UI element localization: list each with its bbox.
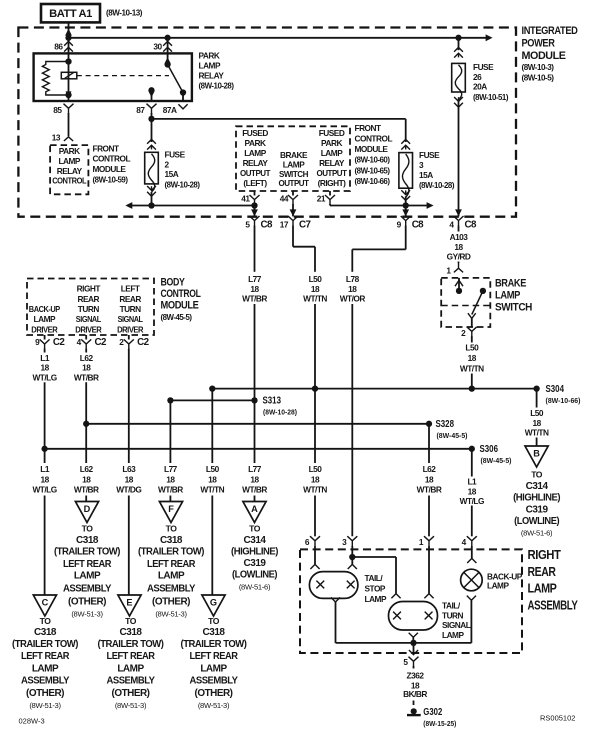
svg-text:CONTROL: CONTROL bbox=[52, 176, 86, 186]
svg-text:D: D bbox=[84, 504, 91, 514]
svg-text:41: 41 bbox=[241, 193, 250, 203]
svg-text:L1: L1 bbox=[467, 477, 477, 487]
svg-text:S313: S313 bbox=[263, 395, 282, 406]
svg-text:S306: S306 bbox=[480, 444, 499, 455]
svg-text:E: E bbox=[126, 598, 132, 608]
svg-text:PARK: PARK bbox=[245, 138, 266, 148]
svg-text:C318: C318 bbox=[160, 535, 183, 546]
svg-text:(8W-51-3): (8W-51-3) bbox=[115, 701, 147, 710]
svg-text:LEFT REAR: LEFT REAR bbox=[147, 559, 196, 570]
svg-text:(8W-51-6): (8W-51-6) bbox=[239, 583, 271, 592]
svg-text:CONTROL: CONTROL bbox=[161, 288, 201, 300]
svg-text:(8W-10-51): (8W-10-51) bbox=[473, 92, 509, 102]
svg-text:17: 17 bbox=[280, 220, 289, 230]
svg-text:30: 30 bbox=[153, 41, 162, 51]
svg-text:LEFT REAR: LEFT REAR bbox=[21, 651, 70, 662]
svg-text:RELAY: RELAY bbox=[243, 158, 269, 168]
svg-text:(TRAILER TOW): (TRAILER TOW) bbox=[181, 639, 247, 650]
svg-text:L50: L50 bbox=[530, 408, 544, 418]
svg-text:A103: A103 bbox=[450, 232, 469, 242]
svg-text:18: 18 bbox=[82, 475, 91, 485]
svg-text:PARK: PARK bbox=[321, 138, 342, 148]
svg-text:MODULE: MODULE bbox=[93, 164, 127, 174]
svg-text:ASSEMBLY: ASSEMBLY bbox=[147, 584, 196, 595]
svg-text:TAIL/: TAIL/ bbox=[442, 601, 461, 611]
svg-text:18: 18 bbox=[468, 486, 477, 496]
svg-text:C318: C318 bbox=[203, 627, 226, 638]
svg-text:(LOWLINE): (LOWLINE) bbox=[232, 570, 277, 581]
svg-text:(8W-10-13): (8W-10-13) bbox=[106, 7, 143, 17]
svg-text:(8W-10-66): (8W-10-66) bbox=[546, 396, 582, 405]
svg-text:LAMP: LAMP bbox=[74, 571, 101, 582]
svg-text:20A: 20A bbox=[473, 82, 487, 92]
svg-text:LAMP: LAMP bbox=[32, 663, 59, 674]
svg-text:L77: L77 bbox=[248, 274, 262, 284]
svg-text:C: C bbox=[42, 598, 49, 608]
svg-text:C319: C319 bbox=[244, 558, 267, 569]
svg-text:L62: L62 bbox=[423, 464, 437, 474]
svg-text:RS005102: RS005102 bbox=[540, 714, 575, 723]
svg-text:C319: C319 bbox=[526, 504, 549, 515]
svg-text:18: 18 bbox=[40, 363, 49, 373]
svg-text:87A: 87A bbox=[163, 105, 177, 115]
svg-text:FRONT: FRONT bbox=[355, 123, 382, 133]
svg-text:A: A bbox=[251, 504, 258, 514]
svg-text:RELAY: RELAY bbox=[57, 166, 83, 176]
svg-text:(TRAILER TOW): (TRAILER TOW) bbox=[98, 639, 164, 650]
svg-text:C8: C8 bbox=[261, 220, 273, 231]
svg-text:WT/TN: WT/TN bbox=[303, 293, 327, 303]
svg-text:18: 18 bbox=[40, 475, 49, 485]
svg-text:WT/TN: WT/TN bbox=[525, 428, 549, 438]
svg-text:(8W-10-60): (8W-10-60) bbox=[355, 155, 391, 165]
svg-text:LEFT REAR: LEFT REAR bbox=[63, 559, 112, 570]
svg-text:TURN: TURN bbox=[120, 304, 142, 314]
svg-text:C2: C2 bbox=[53, 337, 65, 348]
svg-text:WT/LG: WT/LG bbox=[32, 372, 56, 382]
svg-text:(TRAILER TOW): (TRAILER TOW) bbox=[12, 639, 78, 650]
svg-text:LAMP: LAMP bbox=[528, 581, 558, 596]
svg-text:F: F bbox=[168, 504, 174, 514]
svg-text:WT/BR: WT/BR bbox=[74, 484, 99, 494]
svg-text:(8W-10-59): (8W-10-59) bbox=[93, 175, 129, 185]
svg-text:GY/RD: GY/RD bbox=[447, 252, 471, 262]
svg-text:REAR: REAR bbox=[528, 564, 557, 579]
svg-text:REAR: REAR bbox=[119, 294, 141, 304]
svg-text:(OTHER): (OTHER) bbox=[152, 597, 190, 608]
svg-text:L62: L62 bbox=[80, 464, 94, 474]
svg-text:(HIGHLINE): (HIGHLINE) bbox=[513, 493, 560, 504]
svg-text:C7: C7 bbox=[299, 220, 311, 231]
svg-text:(8W-51-6): (8W-51-6) bbox=[521, 529, 553, 538]
svg-text:LAMP: LAMP bbox=[365, 594, 387, 604]
svg-text:LAMP: LAMP bbox=[34, 314, 56, 324]
svg-text:TO: TO bbox=[40, 616, 52, 626]
svg-text:LAMP: LAMP bbox=[117, 663, 144, 674]
svg-text:L62: L62 bbox=[80, 353, 94, 363]
svg-text:L1: L1 bbox=[40, 353, 50, 363]
svg-text:WT/TN: WT/TN bbox=[460, 364, 484, 374]
svg-text:L50: L50 bbox=[206, 464, 220, 474]
svg-text:(8W-10-28): (8W-10-28) bbox=[199, 81, 235, 91]
svg-text:LAMP: LAMP bbox=[321, 148, 343, 158]
svg-text:LAMP: LAMP bbox=[58, 156, 80, 166]
svg-text:SIGNAL: SIGNAL bbox=[76, 314, 101, 324]
svg-text:FUSE: FUSE bbox=[165, 150, 186, 160]
svg-text:TAIL/: TAIL/ bbox=[365, 573, 384, 583]
svg-text:(OTHER): (OTHER) bbox=[195, 688, 233, 699]
svg-text:(8W-10-28): (8W-10-28) bbox=[165, 179, 201, 189]
svg-text:RELAY: RELAY bbox=[319, 158, 345, 168]
svg-text:(8W-45-5): (8W-45-5) bbox=[437, 431, 469, 440]
svg-text:18: 18 bbox=[311, 284, 320, 294]
svg-text:DRIVER: DRIVER bbox=[31, 324, 57, 334]
svg-text:C2: C2 bbox=[137, 337, 149, 348]
svg-text:(TRAILER TOW): (TRAILER TOW) bbox=[138, 546, 204, 557]
svg-text:DRIVER: DRIVER bbox=[75, 324, 101, 334]
svg-text:WT/TN: WT/TN bbox=[303, 484, 327, 494]
svg-text:LAMP: LAMP bbox=[495, 290, 521, 302]
svg-text:(OTHER): (OTHER) bbox=[26, 688, 64, 699]
svg-text:(LOWLINE): (LOWLINE) bbox=[514, 516, 559, 527]
svg-text:ASSEMBLY: ASSEMBLY bbox=[21, 676, 70, 687]
svg-text:LEFT REAR: LEFT REAR bbox=[190, 651, 239, 662]
svg-text:BRAKE: BRAKE bbox=[495, 278, 527, 290]
svg-text:18: 18 bbox=[454, 242, 463, 252]
svg-text:FRONT: FRONT bbox=[93, 144, 120, 154]
svg-text:(OTHER): (OTHER) bbox=[68, 597, 106, 608]
svg-text:C318: C318 bbox=[120, 627, 143, 638]
svg-text:ASSEMBLY: ASSEMBLY bbox=[528, 598, 579, 613]
svg-text:WT/BR: WT/BR bbox=[158, 484, 183, 494]
svg-text:LAMP: LAMP bbox=[158, 571, 185, 582]
svg-text:WT/BR: WT/BR bbox=[417, 484, 442, 494]
svg-text:C8: C8 bbox=[465, 220, 477, 231]
svg-text:TO: TO bbox=[125, 616, 137, 626]
svg-text:L1: L1 bbox=[40, 464, 50, 474]
svg-text:(TRAILER TOW): (TRAILER TOW) bbox=[54, 546, 120, 557]
svg-text:L78: L78 bbox=[346, 274, 360, 284]
svg-text:(8W-15-25): (8W-15-25) bbox=[423, 719, 456, 728]
svg-text:TURN: TURN bbox=[442, 611, 464, 621]
svg-text:DRIVER: DRIVER bbox=[117, 324, 143, 334]
svg-text:RELAY: RELAY bbox=[199, 71, 225, 81]
svg-text:L63: L63 bbox=[122, 464, 136, 474]
svg-text:ASSEMBLY: ASSEMBLY bbox=[107, 676, 156, 687]
svg-text:(8W-45-5): (8W-45-5) bbox=[161, 312, 193, 322]
svg-text:028W-3: 028W-3 bbox=[19, 716, 45, 725]
svg-text:WT/TN: WT/TN bbox=[200, 484, 224, 494]
svg-text:SIGNAL: SIGNAL bbox=[442, 620, 471, 630]
svg-text:TURN: TURN bbox=[78, 304, 100, 314]
svg-text:MODULE: MODULE bbox=[355, 144, 389, 154]
svg-text:BACK-UP: BACK-UP bbox=[29, 304, 61, 314]
svg-text:OUTPUT: OUTPUT bbox=[317, 168, 347, 178]
svg-text:LAMP: LAMP bbox=[199, 61, 221, 71]
svg-text:MODULE: MODULE bbox=[522, 50, 567, 62]
svg-text:RIGHT: RIGHT bbox=[77, 284, 101, 294]
svg-text:18: 18 bbox=[311, 475, 320, 485]
svg-text:CONTROL: CONTROL bbox=[93, 154, 131, 164]
svg-text:LAMP: LAMP bbox=[442, 630, 464, 640]
svg-text:WT/LG: WT/LG bbox=[460, 496, 484, 506]
svg-text:SWITCH: SWITCH bbox=[495, 302, 532, 314]
svg-text:INTEGRATED: INTEGRATED bbox=[522, 25, 578, 37]
svg-text:LEFT REAR: LEFT REAR bbox=[107, 651, 156, 662]
svg-text:(8W-51-3): (8W-51-3) bbox=[71, 610, 103, 619]
svg-text:RIGHT: RIGHT bbox=[528, 547, 561, 562]
svg-text:FUSE: FUSE bbox=[419, 150, 440, 160]
svg-text:(8W-10-28): (8W-10-28) bbox=[419, 180, 455, 190]
svg-text:(8W-10-5): (8W-10-5) bbox=[522, 72, 555, 82]
svg-text:LAMP: LAMP bbox=[244, 148, 266, 158]
svg-text:LAMP: LAMP bbox=[200, 663, 227, 674]
svg-text:C314: C314 bbox=[526, 481, 549, 492]
svg-text:87: 87 bbox=[136, 105, 145, 115]
svg-text:FUSED: FUSED bbox=[242, 128, 268, 138]
svg-text:(8W-10-65): (8W-10-65) bbox=[355, 165, 391, 175]
svg-text:ASSEMBLY: ASSEMBLY bbox=[190, 676, 239, 687]
svg-text:B: B bbox=[533, 449, 540, 459]
svg-text:LAMP: LAMP bbox=[487, 580, 509, 590]
svg-text:(8W-51-3): (8W-51-3) bbox=[29, 701, 61, 710]
svg-text:STOP: STOP bbox=[365, 584, 386, 594]
svg-text:L77: L77 bbox=[164, 464, 178, 474]
svg-text:C2: C2 bbox=[95, 337, 107, 348]
svg-text:SIGNAL: SIGNAL bbox=[118, 314, 143, 324]
svg-text:BK/BR: BK/BR bbox=[403, 689, 427, 699]
svg-text:18: 18 bbox=[82, 363, 91, 373]
svg-text:PARK: PARK bbox=[199, 51, 220, 61]
svg-text:REAR: REAR bbox=[78, 294, 100, 304]
svg-text:WT/DG: WT/DG bbox=[116, 484, 141, 494]
svg-text:18: 18 bbox=[425, 475, 434, 485]
svg-text:BATT A1: BATT A1 bbox=[49, 8, 92, 20]
svg-text:ASSEMBLY: ASSEMBLY bbox=[63, 584, 112, 595]
svg-text:TO: TO bbox=[208, 616, 220, 626]
svg-text:15A: 15A bbox=[165, 169, 179, 179]
svg-text:13: 13 bbox=[52, 132, 61, 142]
svg-text:18: 18 bbox=[348, 284, 357, 294]
svg-text:S328: S328 bbox=[436, 419, 455, 430]
svg-text:21: 21 bbox=[317, 193, 326, 203]
svg-text:(8W-10-66): (8W-10-66) bbox=[355, 176, 391, 186]
svg-text:(HIGHLINE): (HIGHLINE) bbox=[231, 546, 278, 557]
svg-text:44: 44 bbox=[280, 193, 289, 203]
svg-text:(8W-10-3): (8W-10-3) bbox=[522, 62, 555, 72]
svg-text:WT/OR: WT/OR bbox=[340, 293, 366, 303]
svg-text:C8: C8 bbox=[412, 220, 424, 231]
svg-text:MODULE: MODULE bbox=[161, 300, 200, 312]
svg-text:18: 18 bbox=[125, 475, 134, 485]
svg-text:18: 18 bbox=[468, 353, 477, 363]
svg-text:G: G bbox=[210, 598, 217, 608]
svg-text:86: 86 bbox=[54, 41, 63, 51]
svg-text:FUSE: FUSE bbox=[473, 62, 494, 72]
svg-text:L50: L50 bbox=[309, 274, 323, 284]
svg-text:BODY: BODY bbox=[161, 277, 186, 289]
svg-text:S304: S304 bbox=[546, 384, 565, 395]
svg-text:18: 18 bbox=[166, 475, 175, 485]
svg-text:LEFT: LEFT bbox=[121, 284, 140, 294]
svg-text:(8W-10-28): (8W-10-28) bbox=[263, 408, 298, 417]
svg-text:TO: TO bbox=[531, 470, 543, 480]
svg-text:TO: TO bbox=[82, 523, 94, 533]
svg-text:PARK: PARK bbox=[59, 146, 80, 156]
svg-text:18: 18 bbox=[250, 284, 259, 294]
svg-text:85: 85 bbox=[53, 105, 62, 115]
svg-text:15A: 15A bbox=[419, 170, 433, 180]
svg-text:(OTHER): (OTHER) bbox=[112, 688, 150, 699]
svg-text:FUSED: FUSED bbox=[319, 128, 345, 138]
svg-text:(8W-51-3): (8W-51-3) bbox=[198, 701, 230, 710]
svg-text:C318: C318 bbox=[76, 535, 99, 546]
svg-text:18: 18 bbox=[208, 475, 217, 485]
svg-text:Z362: Z362 bbox=[407, 670, 425, 680]
svg-text:OUTPUT: OUTPUT bbox=[279, 178, 309, 188]
svg-text:L77: L77 bbox=[248, 464, 262, 474]
svg-text:WT/BR: WT/BR bbox=[242, 293, 267, 303]
svg-text:C314: C314 bbox=[244, 535, 267, 546]
svg-text:POWER: POWER bbox=[522, 38, 555, 50]
svg-text:(RIGHT): (RIGHT) bbox=[318, 178, 347, 188]
svg-text:TO: TO bbox=[249, 523, 261, 533]
svg-text:OUTPUT: OUTPUT bbox=[240, 168, 270, 178]
svg-text:26: 26 bbox=[473, 72, 482, 82]
svg-text:WT/BR: WT/BR bbox=[242, 484, 267, 494]
svg-text:L50: L50 bbox=[465, 343, 479, 353]
svg-text:(8W-45-5): (8W-45-5) bbox=[481, 456, 513, 465]
svg-text:(LEFT): (LEFT) bbox=[243, 178, 267, 188]
svg-text:TO: TO bbox=[166, 523, 178, 533]
svg-text:18: 18 bbox=[250, 475, 259, 485]
svg-text:CONTROL: CONTROL bbox=[355, 133, 393, 143]
svg-text:WT/BR: WT/BR bbox=[74, 372, 99, 382]
svg-text:L50: L50 bbox=[309, 464, 323, 474]
svg-text:C318: C318 bbox=[34, 627, 57, 638]
svg-text:WT/LG: WT/LG bbox=[32, 484, 56, 494]
svg-text:G302: G302 bbox=[423, 707, 442, 718]
svg-text:(8W-51-3): (8W-51-3) bbox=[155, 610, 187, 619]
